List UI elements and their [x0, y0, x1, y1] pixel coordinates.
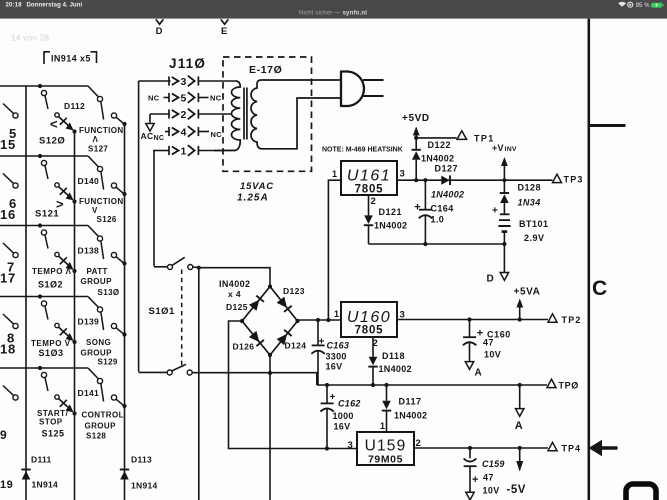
svg-text:A: A	[475, 368, 483, 379]
svg-text:S12Ø: S12Ø	[39, 136, 65, 147]
svg-text:D138: D138	[78, 246, 100, 256]
node C159	[468, 446, 472, 450]
wire to TP1	[416, 137, 456, 139]
node A drop	[518, 383, 522, 387]
switch S130	[97, 236, 102, 241]
connector J110 pin 1	[168, 146, 170, 155]
switch S125	[41, 372, 46, 377]
node	[197, 266, 201, 270]
status bar wifi icon	[619, 3, 626, 7]
node	[414, 178, 418, 182]
test point TP3	[553, 174, 562, 182]
svg-text:S129: S129	[98, 358, 118, 367]
wire bridge minus to U159 rail	[229, 321, 357, 449]
svg-text:9: 9	[0, 428, 7, 442]
transformer primary winding	[215, 81, 241, 151]
wire top pole to bridge	[199, 268, 270, 287]
svg-text:D139: D139	[78, 317, 100, 327]
svg-text:NOTE: M-469 HEATSINK: NOTE: M-469 HEATSINK	[322, 147, 403, 154]
test point TP0	[547, 379, 556, 387]
svg-text:D111: D111	[31, 455, 52, 465]
1N914 x5 bracket label	[44, 52, 50, 64]
svg-text:C163: C163	[327, 341, 350, 351]
diode D128 1N34	[503, 180, 505, 193]
capacitor C163 3300/16V	[317, 320, 319, 345]
svg-text:D113: D113	[131, 455, 152, 465]
svg-text:C159: C159	[482, 459, 505, 469]
node bridge right	[295, 319, 299, 323]
wire row bus 2	[0, 155, 88, 157]
node C163 tap	[316, 318, 320, 322]
svg-text:CONTROL: CONTROL	[82, 411, 124, 420]
node row3	[38, 223, 42, 227]
diode D126	[249, 331, 259, 342]
svg-text:x 4: x 4	[228, 289, 241, 299]
test point TP1	[457, 131, 467, 140]
svg-text:1N34: 1N34	[518, 198, 541, 208]
svg-text:D123: D123	[283, 286, 305, 296]
node C162	[325, 383, 329, 387]
svg-text:D112: D112	[64, 101, 85, 111]
svg-text:7805: 7805	[355, 184, 384, 196]
svg-text:2: 2	[371, 196, 377, 207]
svg-text:1: 1	[332, 169, 337, 179]
svg-text:GROUP: GROUP	[81, 349, 113, 358]
svg-text:47: 47	[483, 473, 494, 483]
wire ground bus of U161	[369, 243, 505, 245]
node bridge left	[240, 319, 244, 323]
svg-text:D126: D126	[233, 342, 255, 352]
test point TP4	[548, 442, 557, 450]
switch S101 bottom pole	[139, 371, 167, 373]
svg-text:IN914 x5: IN914 x5	[51, 54, 91, 64]
switch S101 gang dashed link	[181, 270, 183, 367]
svg-text:U159: U159	[365, 438, 407, 455]
off-page connector arrow D	[156, 19, 164, 24]
switch partial left edge row1	[13, 113, 18, 118]
wire row bus 4	[0, 296, 88, 298]
svg-text:TP1: TP1	[474, 134, 495, 144]
svg-text:+: +	[330, 392, 336, 403]
svg-text:+: +	[414, 202, 421, 214]
wire secondary top to plug	[261, 79, 342, 81]
switch partial left edge row4	[13, 323, 18, 328]
svg-text:NC: NC	[210, 94, 222, 103]
node -5V	[518, 446, 522, 450]
node C160	[467, 317, 471, 321]
svg-text:E-17Ø: E-17Ø	[249, 64, 282, 76]
svg-text:C162: C162	[338, 399, 361, 409]
svg-text:5: 5	[181, 93, 187, 105]
switch partial left edge row2	[13, 183, 18, 188]
transformer secondary winding	[251, 80, 261, 149]
wire U159 output	[414, 447, 548, 449]
diode D118 1N4002	[369, 357, 378, 366]
node row2	[38, 154, 42, 158]
svg-text:16: 16	[0, 207, 16, 222]
tick mark top right	[588, 124, 626, 127]
svg-text:NC: NC	[148, 94, 160, 103]
wire row bus 5	[0, 367, 88, 369]
switch S129	[97, 307, 102, 312]
svg-text:10V: 10V	[484, 350, 501, 360]
svg-text:79M05: 79M05	[368, 454, 403, 466]
svg-text:D: D	[156, 26, 163, 37]
svg-text:3: 3	[181, 76, 187, 88]
svg-text:1: 1	[334, 309, 339, 319]
wire row bus 3	[0, 225, 88, 227]
svg-text:4: 4	[181, 127, 187, 139]
node row2 right	[122, 192, 126, 196]
svg-text:1N4002: 1N4002	[379, 364, 412, 374]
wire secondary bottom to plug	[262, 98, 342, 149]
wire U160 output	[397, 319, 548, 321]
svg-text:10V: 10V	[483, 486, 500, 496]
svg-text:SONG: SONG	[86, 338, 111, 347]
svg-text:1: 1	[380, 421, 385, 431]
svg-text:+: +	[492, 206, 498, 217]
wire J110 pin3 left drop	[139, 80, 171, 82]
node	[423, 242, 427, 246]
net A marker under C160	[465, 362, 473, 370]
svg-text:TP4: TP4	[562, 444, 582, 454]
svg-text:PATT: PATT	[87, 267, 108, 276]
net marker under C159	[466, 492, 474, 500]
wire U161 output bus	[397, 179, 553, 181]
switch partial left edge row3	[13, 252, 18, 257]
switch S126	[97, 166, 102, 171]
svg-text:15VAC: 15VAC	[240, 181, 274, 192]
diode D117 1N4002	[386, 385, 388, 401]
connector J110 pin 5	[168, 93, 170, 102]
wire U160 pin2	[372, 337, 374, 357]
node	[502, 242, 506, 246]
matrix vertical bus left	[25, 86, 27, 500]
node TP1 branch	[414, 136, 418, 140]
svg-text:S126: S126	[97, 215, 117, 224]
wire pin1 drop to S101	[153, 151, 155, 267]
svg-text:<: <	[50, 117, 58, 132]
svg-text:STOP: STOP	[39, 418, 63, 427]
wire bottom pole to TP0 bus	[192, 373, 317, 385]
net AC marker triangle	[146, 124, 154, 132]
diode D125	[249, 300, 259, 311]
test point TP2	[548, 314, 557, 322]
bridge wires	[242, 287, 270, 322]
wire U161 pin1 down to U160 input	[328, 180, 341, 320]
svg-text:17: 17	[0, 271, 16, 286]
svg-text:C164: C164	[431, 204, 454, 214]
wire row bus 1	[0, 85, 88, 87]
wire long vertical from S101 node	[198, 268, 200, 500]
diode D124	[277, 334, 288, 345]
node row1	[38, 84, 42, 88]
node row5 right	[122, 404, 126, 408]
svg-text:16V: 16V	[334, 422, 351, 432]
connector J110 pin 3	[168, 76, 170, 85]
svg-text:1.25A: 1.25A	[237, 193, 269, 204]
switch S127	[97, 96, 102, 101]
svg-text:D117: D117	[399, 397, 422, 407]
svg-text:19: 19	[0, 479, 13, 491]
node	[423, 178, 427, 182]
svg-text:3: 3	[400, 169, 406, 180]
svg-text:D124: D124	[285, 341, 307, 351]
svg-text:C: C	[592, 277, 607, 300]
capacitor C164	[424, 180, 426, 209]
node TP3	[502, 178, 506, 182]
connector J110 pin 2	[168, 109, 170, 118]
svg-text:TEMPO Λ: TEMPO Λ	[32, 267, 72, 276]
svg-text:1N4002: 1N4002	[431, 190, 464, 200]
capacitor C159 47/10V	[469, 448, 471, 458]
svg-text:2.9V: 2.9V	[524, 233, 545, 243]
svg-text:NC: NC	[211, 130, 223, 139]
svg-text:Λ: Λ	[93, 135, 99, 144]
svg-text:+: +	[319, 337, 325, 348]
svg-text:TEMPO V: TEMPO V	[31, 339, 71, 348]
regulator U160 7805	[341, 302, 397, 337]
node row3 right	[122, 261, 126, 265]
svg-text:FUNCTION: FUNCTION	[79, 126, 124, 135]
svg-text:1N4002: 1N4002	[421, 154, 454, 164]
status bar battery icon	[651, 3, 662, 8]
svg-text:D125: D125	[226, 302, 248, 312]
switch S103	[41, 301, 46, 306]
net -5V arrow	[519, 448, 521, 461]
wire J110 pin1	[153, 150, 169, 152]
svg-text:S125: S125	[42, 429, 65, 439]
svg-text:15: 15	[0, 137, 16, 152]
wire J110 pin2	[150, 113, 169, 115]
svg-text:TP2: TP2	[562, 315, 582, 325]
switch S102	[41, 230, 46, 235]
svg-text:D128: D128	[518, 183, 542, 193]
transformer core	[243, 88, 245, 140]
svg-text:FUNCTION: FUNCTION	[79, 197, 124, 206]
diode D138	[55, 252, 59, 256]
net A marker drop	[519, 385, 521, 408]
svg-text:1000: 1000	[333, 411, 354, 421]
svg-text:AC: AC	[141, 131, 154, 141]
capacitor C160 47/10V	[469, 320, 471, 337]
svg-text:D: D	[487, 274, 495, 285]
left pointing arrow marker	[589, 440, 618, 456]
svg-text:GROUP: GROUP	[81, 277, 113, 286]
svg-text:3300: 3300	[326, 352, 347, 362]
off-page connector arrow E	[221, 19, 229, 24]
page right border line	[587, 19, 590, 500]
svg-text:3: 3	[348, 440, 354, 451]
svg-text:95 %: 95 %	[636, 3, 651, 9]
wire +5VD riser	[415, 135, 417, 150]
bottom right rounded icon	[626, 484, 656, 500]
svg-text:INV: INV	[505, 146, 517, 153]
svg-text:1N4002: 1N4002	[394, 411, 427, 421]
wire U161 pin2	[368, 195, 370, 215]
svg-text:S1Ø3: S1Ø3	[39, 348, 64, 358]
node row4	[38, 294, 42, 298]
svg-text:+V: +V	[492, 143, 504, 153]
wire J110 pin3 to transformer	[198, 80, 236, 82]
node bridge bottom	[268, 353, 272, 357]
svg-text:U160: U160	[347, 309, 391, 326]
diode D122 1N4002	[412, 149, 421, 151]
svg-text:1N914: 1N914	[131, 481, 158, 491]
node U161 feed tap	[326, 318, 330, 322]
matrix vertical bus right	[124, 124, 126, 500]
svg-text:V: V	[92, 206, 98, 215]
svg-text:+5VD: +5VD	[402, 113, 430, 124]
switch S120	[41, 90, 46, 95]
status bar rotation lock icon	[628, 2, 633, 7]
diode D127 1N4002	[441, 176, 449, 185]
svg-text:D127: D127	[435, 164, 459, 174]
node bridge bottom on wire	[268, 371, 272, 375]
wire bridge plus to U160	[298, 319, 342, 321]
switch S121	[41, 160, 46, 165]
svg-text:S121: S121	[35, 209, 59, 220]
wire TP0 bus	[317, 384, 547, 386]
svg-text:J11Ø: J11Ø	[169, 56, 206, 71]
svg-text:S127: S127	[88, 145, 108, 154]
node row1 right	[122, 122, 126, 126]
diode D140	[55, 183, 59, 187]
connector J110 pin 4	[168, 127, 170, 136]
diode D123	[277, 297, 287, 308]
node bridge top	[268, 284, 272, 288]
svg-text:18: 18	[0, 342, 16, 357]
switch partial left edge row5	[13, 395, 18, 400]
diode D141	[55, 395, 59, 399]
status bar background	[0, 0, 667, 19]
diode D121 1N4002	[364, 215, 373, 224]
svg-text:A: A	[515, 420, 523, 432]
svg-text:1: 1	[181, 146, 187, 158]
svg-text:D122: D122	[428, 140, 452, 150]
svg-text:TPØ: TPØ	[559, 380, 579, 390]
svg-text:D121: D121	[379, 207, 403, 217]
svg-text:+5VA: +5VA	[514, 287, 541, 298]
net D marker	[503, 244, 505, 272]
svg-text:Donnerstag 4. Juni: Donnerstag 4. Juni	[27, 3, 83, 9]
wire bridge bottom down	[269, 355, 271, 500]
svg-text:S128: S128	[86, 432, 106, 441]
svg-text:1.0: 1.0	[431, 215, 445, 225]
svg-text:D118: D118	[382, 351, 405, 361]
svg-text:NC: NC	[154, 135, 165, 142]
svg-text:S1Ø2: S1Ø2	[38, 280, 63, 290]
node +5VA	[518, 317, 522, 321]
svg-text:TP3: TP3	[564, 175, 584, 185]
svg-text:20:18: 20:18	[6, 3, 23, 9]
svg-text:Nicht sicher — synfo.nl: Nicht sicher — synfo.nl	[299, 10, 367, 17]
node C162 bottom	[325, 446, 329, 450]
svg-text:7805: 7805	[355, 325, 384, 337]
svg-text:D141: D141	[78, 388, 100, 398]
matrix vertical bus middle	[74, 131, 76, 500]
node row4 right	[122, 332, 126, 336]
svg-text:-5V: -5V	[507, 484, 526, 496]
svg-text:GROUP: GROUP	[85, 422, 117, 431]
regulator U161 7805	[341, 161, 397, 195]
capacitor C162 1000/16V	[326, 385, 328, 403]
svg-text:+: +	[472, 474, 479, 486]
diode D111	[21, 469, 30, 471]
diode D113	[120, 469, 129, 471]
node D117	[384, 383, 388, 387]
svg-text:U161: U161	[347, 168, 391, 185]
svg-text:1N4002: 1N4002	[374, 221, 407, 231]
AC plug	[341, 72, 364, 107]
node row5	[38, 366, 42, 370]
svg-text:D140: D140	[78, 176, 100, 186]
svg-text:S1Ø1: S1Ø1	[149, 306, 176, 317]
svg-text:16V: 16V	[326, 362, 343, 372]
switch S101 top pole	[168, 265, 173, 270]
svg-text:14 von 28: 14 von 28	[11, 33, 49, 43]
svg-text:IN4002: IN4002	[219, 279, 250, 289]
diode D139	[55, 323, 59, 327]
svg-text:47: 47	[483, 338, 494, 348]
node D118	[371, 383, 375, 387]
transformer E-170 dashed box	[223, 57, 312, 171]
svg-text:S13Ø: S13Ø	[98, 288, 120, 297]
svg-text:2: 2	[181, 109, 187, 121]
svg-text:1N914: 1N914	[32, 480, 59, 490]
regulator U159 79M05	[357, 432, 414, 465]
switch S128	[97, 378, 102, 383]
svg-text:E: E	[221, 26, 228, 37]
diode D112	[55, 113, 59, 117]
svg-text:BT101: BT101	[519, 219, 549, 229]
